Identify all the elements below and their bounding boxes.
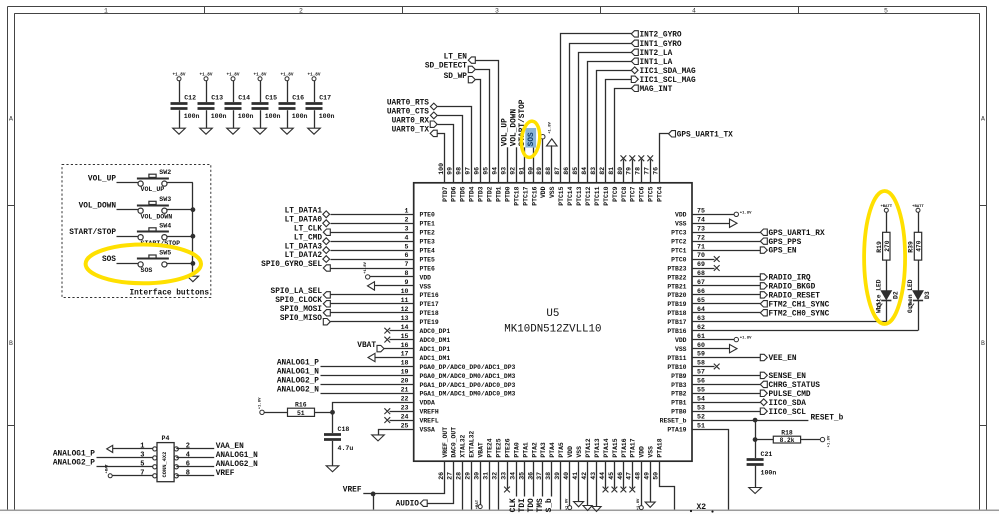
svg-text:XTAL32: XTAL32 <box>460 434 467 457</box>
svg-text:LT_DATA2: LT_DATA2 <box>285 252 323 260</box>
svg-text:60: 60 <box>697 342 705 349</box>
svg-text:SD_WP: SD_WP <box>444 73 468 81</box>
svg-text:96: 96 <box>474 167 481 175</box>
svg-text:PTD7: PTD7 <box>442 186 449 202</box>
svg-text:RESET_b: RESET_b <box>660 418 687 425</box>
svg-text:PTE24: PTE24 <box>487 438 494 457</box>
svg-text:48: 48 <box>635 472 642 480</box>
svg-text:PTA12: PTA12 <box>585 438 592 457</box>
svg-text:UART0_TX: UART0_TX <box>392 127 430 135</box>
svg-text:49: 49 <box>644 472 651 480</box>
svg-text:PTC1: PTC1 <box>671 248 687 255</box>
svg-text:PTA4: PTA4 <box>549 442 556 458</box>
svg-text:21: 21 <box>401 387 409 394</box>
svg-text:PTE19: PTE19 <box>420 319 439 326</box>
svg-text:PTA5: PTA5 <box>558 442 565 458</box>
svg-text:52: 52 <box>697 413 705 420</box>
svg-text:IIC0_SDA: IIC0_SDA <box>769 400 807 408</box>
svg-text:VREF: VREF <box>216 470 235 478</box>
svg-text:IIC1_SDA_MAG: IIC1_SDA_MAG <box>640 68 696 76</box>
svg-text:2: 2 <box>405 216 409 223</box>
svg-text:PULSE_CMD: PULSE_CMD <box>769 391 811 399</box>
svg-text:PTB18: PTB18 <box>667 310 686 317</box>
svg-text:Green LED: Green LED <box>907 279 914 313</box>
svg-text:PTC8: PTC8 <box>621 186 628 202</box>
svg-text:54: 54 <box>697 395 705 402</box>
svg-text:CLK: CLK <box>510 498 518 512</box>
svg-text:VSS: VSS <box>576 446 583 458</box>
svg-text:23: 23 <box>401 404 409 411</box>
svg-text:PTC14: PTC14 <box>567 186 574 205</box>
svg-text:MAG_INT: MAG_INT <box>640 86 673 94</box>
svg-text:RADIO_IRQ: RADIO_IRQ <box>769 275 811 283</box>
svg-text:PTA13: PTA13 <box>594 438 601 457</box>
svg-text:PTC16: PTC16 <box>531 186 538 205</box>
svg-text:14: 14 <box>401 324 409 331</box>
svg-text:PTC4: PTC4 <box>657 186 664 202</box>
svg-text:58: 58 <box>697 360 705 367</box>
svg-text:White LED: White LED <box>876 279 883 313</box>
svg-text:100n: 100n <box>319 113 335 120</box>
svg-text:PTA19: PTA19 <box>667 427 686 434</box>
svg-text:ANALOG1_N: ANALOG1_N <box>277 369 319 377</box>
svg-text:PTC12: PTC12 <box>585 186 592 205</box>
svg-text:PTC2: PTC2 <box>671 239 687 246</box>
svg-text:33: 33 <box>500 472 507 480</box>
svg-text:15: 15 <box>401 333 409 340</box>
svg-text:ANALOG2_N: ANALOG2_N <box>216 461 258 469</box>
svg-text:A: A <box>981 116 985 123</box>
svg-text:6: 6 <box>405 252 409 259</box>
svg-text:TMS: TMS <box>537 498 545 512</box>
svg-text:PTA15: PTA15 <box>612 438 619 457</box>
svg-text:C14: C14 <box>238 95 250 102</box>
svg-text:PTE26: PTE26 <box>504 438 511 457</box>
svg-text:SD_DETECT: SD_DETECT <box>425 63 467 71</box>
svg-text:INT1_LA: INT1_LA <box>640 59 673 67</box>
svg-text:PTA3: PTA3 <box>540 442 547 458</box>
svg-text:PTB23: PTB23 <box>667 265 686 272</box>
svg-text:PTC3: PTC3 <box>671 230 687 237</box>
svg-text:+1.8V: +1.8V <box>740 211 752 215</box>
svg-text:100n: 100n <box>184 113 200 120</box>
svg-text:VREF_OUT: VREF_OUT <box>442 427 449 458</box>
svg-text:PTB0: PTB0 <box>671 409 687 416</box>
svg-text:ADC0_DP1: ADC0_DP1 <box>420 328 451 335</box>
svg-text:55: 55 <box>697 387 705 394</box>
svg-text:S_b: S_b <box>546 498 554 512</box>
svg-text:RESET_b: RESET_b <box>811 414 844 422</box>
svg-text:LT_DATA3: LT_DATA3 <box>285 243 323 251</box>
svg-text:UART0_RTS: UART0_RTS <box>387 100 429 108</box>
svg-text:VOL_UP: VOL_UP <box>88 175 116 183</box>
svg-text:ANALOG2_N: ANALOG2_N <box>277 387 319 395</box>
svg-text:PTB19: PTB19 <box>667 301 686 308</box>
svg-text:70: 70 <box>697 252 705 259</box>
svg-text:PTD1: PTD1 <box>496 186 503 202</box>
svg-text:VOL_DOWN: VOL_DOWN <box>510 109 518 147</box>
svg-text:SOS: SOS <box>102 256 116 264</box>
svg-text:INT2_GYRO: INT2_GYRO <box>640 32 682 40</box>
svg-text:PTB1: PTB1 <box>671 400 687 407</box>
svg-text:27: 27 <box>447 472 454 480</box>
svg-text:PTB11: PTB11 <box>667 355 686 362</box>
svg-text:PTC13: PTC13 <box>576 186 583 205</box>
svg-text:19: 19 <box>401 369 409 376</box>
svg-text:VOL_UP: VOL_UP <box>141 186 165 193</box>
svg-text:PTC7: PTC7 <box>630 186 637 202</box>
svg-text:3: 3 <box>495 7 499 14</box>
svg-text:PTB9: PTB9 <box>671 373 687 380</box>
svg-text:PTB20: PTB20 <box>667 292 686 299</box>
svg-text:LT_CMD: LT_CMD <box>294 234 322 242</box>
svg-text:4.7u: 4.7u <box>338 445 354 452</box>
svg-text:PTC18: PTC18 <box>513 186 520 205</box>
svg-text:FTM2_CH0_SYNC: FTM2_CH0_SYNC <box>769 310 830 318</box>
svg-text:98: 98 <box>456 167 463 175</box>
svg-text:270: 270 <box>884 240 891 251</box>
svg-text:PTE25: PTE25 <box>496 438 503 457</box>
svg-text:SOS: SOS <box>141 267 153 274</box>
svg-text:SW4: SW4 <box>159 222 171 229</box>
svg-text:75: 75 <box>697 208 705 215</box>
svg-text:PTE4: PTE4 <box>420 248 436 255</box>
svg-text:PGA0_DM/ADC0_DM0/ADC1_DM3: PGA0_DM/ADC0_DM0/ADC1_DM3 <box>420 373 516 380</box>
svg-text:62: 62 <box>697 324 705 331</box>
svg-text:100n: 100n <box>292 113 308 120</box>
svg-text:PTA0: PTA0 <box>513 442 520 458</box>
svg-text:PTE6: PTE6 <box>420 265 436 272</box>
svg-text:AUDIO: AUDIO <box>396 501 420 509</box>
svg-text:PTB22: PTB22 <box>667 274 686 281</box>
svg-text:7: 7 <box>405 261 409 268</box>
svg-text:31: 31 <box>483 472 490 480</box>
svg-text:+1.8V: +1.8V <box>258 397 262 409</box>
svg-text:LT_DATA1: LT_DATA1 <box>285 208 323 216</box>
svg-text:Interface buttons: Interface buttons <box>129 290 209 298</box>
svg-text:PGA0_DP/ADC0_DP0/ADC1_DP3: PGA0_DP/ADC0_DP0/ADC1_DP3 <box>420 364 516 371</box>
svg-text:R16: R16 <box>295 401 307 408</box>
svg-text:+BAT: +BAT <box>106 463 110 473</box>
svg-text:PTC9: PTC9 <box>612 186 619 202</box>
svg-text:20: 20 <box>401 378 409 385</box>
svg-text:VDD: VDD <box>540 186 547 198</box>
svg-text:SPI0_GYRO_SEL: SPI0_GYRO_SEL <box>261 261 322 269</box>
svg-text:1: 1 <box>104 7 108 14</box>
svg-text:VSS: VSS <box>648 446 655 458</box>
svg-text:76: 76 <box>653 167 660 175</box>
svg-text:46: 46 <box>617 472 624 480</box>
svg-text:71: 71 <box>697 243 705 250</box>
svg-text:74: 74 <box>697 216 705 223</box>
svg-text:5: 5 <box>405 243 409 250</box>
svg-text:C17: C17 <box>319 95 331 102</box>
svg-text:IIC1_SCL_MAG: IIC1_SCL_MAG <box>640 77 696 85</box>
svg-text:VOL_DOWN: VOL_DOWN <box>79 203 117 211</box>
svg-text:59: 59 <box>697 351 705 358</box>
svg-text:ANALOG1_N: ANALOG1_N <box>216 452 258 460</box>
svg-text:95: 95 <box>483 167 490 175</box>
svg-text:VDD: VDD <box>420 274 432 281</box>
svg-text:UART0_RX: UART0_RX <box>392 117 430 125</box>
svg-text:PTE1: PTE1 <box>420 221 436 228</box>
svg-text:SPI0_MOSI: SPI0_MOSI <box>280 306 322 314</box>
svg-text:R19: R19 <box>876 241 883 253</box>
svg-text:PTA16: PTA16 <box>621 438 628 457</box>
svg-text:24: 24 <box>401 413 409 420</box>
svg-text:77: 77 <box>644 167 651 175</box>
svg-text:EXTAL32: EXTAL32 <box>469 431 476 458</box>
svg-text:1: 1 <box>405 208 409 215</box>
svg-text:100n: 100n <box>211 113 227 120</box>
svg-text:51: 51 <box>697 422 705 429</box>
svg-text:P4: P4 <box>162 435 170 442</box>
svg-text:56: 56 <box>697 378 705 385</box>
svg-text:+1.8V: +1.8V <box>364 261 368 273</box>
svg-text:72: 72 <box>697 234 705 241</box>
svg-text:PTC17: PTC17 <box>522 186 529 205</box>
svg-text:53: 53 <box>697 404 705 411</box>
svg-text:VDD: VDD <box>567 446 574 458</box>
svg-text:GPS_PPS: GPS_PPS <box>769 239 802 247</box>
svg-text:PTB2: PTB2 <box>671 391 687 398</box>
svg-text:VOL_DOWN: VOL_DOWN <box>141 213 173 220</box>
svg-text:PTA14: PTA14 <box>603 438 610 457</box>
svg-text:+BAT: +BAT <box>476 499 480 509</box>
svg-text:8.2k: 8.2k <box>780 437 795 444</box>
svg-text:34: 34 <box>509 472 516 480</box>
svg-text:VOL_UP: VOL_UP <box>501 118 509 146</box>
svg-text:80: 80 <box>617 167 624 175</box>
svg-text:1: 1 <box>140 442 144 450</box>
svg-text:ANALOG2_P: ANALOG2_P <box>53 460 95 468</box>
svg-text:VSSA: VSSA <box>420 427 436 434</box>
svg-text:D2: D2 <box>892 291 899 299</box>
svg-text:VBAT: VBAT <box>478 442 485 458</box>
svg-text:ANALOG2_P: ANALOG2_P <box>277 378 319 386</box>
svg-text:PGA1_DM/ADC1_DM0/ADC0_DM3: PGA1_DM/ADC1_DM0/ADC0_DM3 <box>420 391 516 398</box>
svg-text:UART0_CTS: UART0_CTS <box>387 109 429 117</box>
svg-text:VSS: VSS <box>549 186 556 198</box>
svg-text:START/STOP: START/STOP <box>69 229 116 237</box>
svg-text:C15: C15 <box>265 95 277 102</box>
svg-text:VDD: VDD <box>639 446 646 458</box>
svg-text:16: 16 <box>401 342 409 349</box>
svg-text:ADC1_DP1: ADC1_DP1 <box>420 346 451 353</box>
svg-text:SW2: SW2 <box>159 169 171 176</box>
svg-text:PTA17: PTA17 <box>630 438 637 457</box>
svg-text:100n: 100n <box>265 113 281 120</box>
svg-text:C18: C18 <box>338 426 350 433</box>
svg-text:SPI0_LA_SEL: SPI0_LA_SEL <box>271 288 323 296</box>
svg-text:PTB10: PTB10 <box>667 364 686 371</box>
svg-text:PTE17: PTE17 <box>420 301 439 308</box>
svg-text:RADIO_BKGD: RADIO_BKGD <box>769 284 816 292</box>
svg-text:R39: R39 <box>908 241 915 253</box>
svg-text:PTD0: PTD0 <box>504 186 511 202</box>
svg-text:MK10DN512ZVLL10: MK10DN512ZVLL10 <box>504 323 601 335</box>
svg-text:+1.8V: +1.8V <box>549 121 553 133</box>
svg-text:PTE16: PTE16 <box>420 292 439 299</box>
svg-text:100n: 100n <box>761 470 777 477</box>
svg-text:57: 57 <box>697 369 705 376</box>
svg-text:VSS: VSS <box>675 221 687 228</box>
svg-text:PTB16: PTB16 <box>667 328 686 335</box>
svg-text:PTA2: PTA2 <box>531 442 538 458</box>
svg-text:26: 26 <box>438 472 445 480</box>
svg-text:GPS_UART1_TX: GPS_UART1_TX <box>677 131 733 139</box>
svg-text:17: 17 <box>401 351 409 358</box>
svg-text:PGA1_DP/ADC1_DP0/ADC0_DP3: PGA1_DP/ADC1_DP0/ADC0_DP3 <box>420 382 516 389</box>
svg-text:5: 5 <box>884 7 888 14</box>
svg-text:DAC0_OUT: DAC0_OUT <box>451 427 458 458</box>
svg-text:CHRG_STATUS: CHRG_STATUS <box>769 382 821 390</box>
svg-text:TDI: TDI <box>519 498 527 512</box>
svg-text:ANALOG1_P: ANALOG1_P <box>53 451 95 459</box>
svg-text:470: 470 <box>916 240 923 251</box>
svg-text:GPS_EN: GPS_EN <box>769 248 797 256</box>
svg-text:VAA_EN: VAA_EN <box>216 443 244 451</box>
svg-text:81: 81 <box>608 167 615 175</box>
svg-text:GPS_UART1_RX: GPS_UART1_RX <box>769 230 825 238</box>
svg-text:ADC1_DM1: ADC1_DM1 <box>420 355 451 362</box>
svg-text:RADIO_RESET: RADIO_RESET <box>769 293 821 301</box>
svg-text:C16: C16 <box>292 95 304 102</box>
svg-text:ANALOG1_P: ANALOG1_P <box>277 360 319 368</box>
svg-text:PTC5: PTC5 <box>648 186 655 202</box>
svg-text:U5: U5 <box>546 308 559 320</box>
svg-text:22: 22 <box>401 395 409 402</box>
svg-text:32: 32 <box>492 472 499 480</box>
svg-text:PTE5: PTE5 <box>420 256 436 263</box>
svg-text:PTC6: PTC6 <box>639 186 646 202</box>
svg-text:VSS: VSS <box>420 283 432 290</box>
svg-text:2: 2 <box>186 442 190 450</box>
svg-text:94: 94 <box>492 167 499 175</box>
svg-text:+1.8V: +1.8V <box>740 337 752 341</box>
svg-text:30: 30 <box>474 472 481 480</box>
svg-text:LT_DATA0: LT_DATA0 <box>285 216 323 224</box>
svg-text:B: B <box>9 340 13 347</box>
svg-text:PTE0: PTE0 <box>420 212 436 219</box>
svg-text:R18: R18 <box>781 430 793 437</box>
svg-text:25: 25 <box>401 422 409 429</box>
svg-text:X2: X2 <box>697 503 707 512</box>
svg-text:SPI0_MISO: SPI0_MISO <box>280 315 322 323</box>
svg-text:D3: D3 <box>924 291 931 299</box>
svg-text:2: 2 <box>299 7 303 14</box>
svg-text:SOS: SOS <box>528 132 536 146</box>
svg-text:SW3: SW3 <box>159 196 171 203</box>
svg-text:PTD3: PTD3 <box>478 186 485 202</box>
svg-text:VDDA: VDDA <box>420 400 436 407</box>
svg-text:PTA18: PTA18 <box>657 438 664 457</box>
svg-text:PTE2: PTE2 <box>420 230 436 237</box>
svg-text:29: 29 <box>465 472 472 480</box>
svg-text:28: 28 <box>456 472 463 480</box>
svg-text:93: 93 <box>500 167 507 175</box>
svg-text:18: 18 <box>401 360 409 367</box>
svg-text:50: 50 <box>653 472 660 480</box>
svg-text:45: 45 <box>608 472 615 480</box>
svg-text:PTC10: PTC10 <box>603 186 610 205</box>
svg-text:PTD6: PTD6 <box>451 186 458 202</box>
svg-text:99: 99 <box>447 167 454 175</box>
svg-text:92: 92 <box>509 167 516 175</box>
svg-text:PTB17: PTB17 <box>667 319 686 326</box>
svg-text:PTD5: PTD5 <box>460 186 467 202</box>
svg-text:PTE3: PTE3 <box>420 239 436 246</box>
svg-text:CONN_4X2: CONN_4X2 <box>162 452 168 478</box>
svg-text:VSS: VSS <box>675 346 687 353</box>
svg-text:PTB3: PTB3 <box>671 382 687 389</box>
svg-text:PTC0: PTC0 <box>671 256 687 263</box>
svg-text:PTD2: PTD2 <box>487 186 494 202</box>
svg-text:51: 51 <box>297 410 305 417</box>
svg-text:VEE_EN: VEE_EN <box>769 355 797 363</box>
svg-text:100n: 100n <box>238 113 254 120</box>
svg-text:SENSE_EN: SENSE_EN <box>769 373 807 381</box>
svg-text:SPI0_CLOCK: SPI0_CLOCK <box>275 297 322 305</box>
svg-text:VDD: VDD <box>675 212 687 219</box>
svg-text:73: 73 <box>697 225 705 232</box>
svg-text:C13: C13 <box>211 95 223 102</box>
svg-text:C12: C12 <box>184 95 196 102</box>
svg-text:PTC11: PTC11 <box>594 186 601 205</box>
svg-text:3: 3 <box>405 225 409 232</box>
svg-text:VREF: VREF <box>343 487 362 495</box>
svg-text:PTC15: PTC15 <box>558 186 565 205</box>
svg-text:4: 4 <box>692 7 696 14</box>
svg-text:PTE18: PTE18 <box>420 310 439 317</box>
svg-text:79: 79 <box>626 167 633 175</box>
svg-text:69: 69 <box>697 261 705 268</box>
svg-text:3: 3 <box>140 451 144 459</box>
svg-text:IIC0_SCL: IIC0_SCL <box>769 409 807 417</box>
svg-text:VREFH: VREFH <box>420 409 439 416</box>
svg-text:LT_EN: LT_EN <box>444 53 468 61</box>
svg-text:+1.8V: +1.8V <box>828 435 832 447</box>
svg-text:PTB21: PTB21 <box>667 283 686 290</box>
svg-text:61: 61 <box>697 333 705 340</box>
svg-text:100: 100 <box>438 163 445 175</box>
svg-text:78: 78 <box>635 167 642 175</box>
svg-text:ADC0_DM1: ADC0_DM1 <box>420 337 451 344</box>
svg-text:+1.8V: +1.8V <box>637 498 641 510</box>
svg-text:4: 4 <box>186 451 190 459</box>
svg-text:PTD4: PTD4 <box>469 186 476 202</box>
svg-text:FTM2_CH1_SYNC: FTM2_CH1_SYNC <box>769 301 830 309</box>
svg-text:A: A <box>9 116 13 123</box>
svg-text:INT1_GYRO: INT1_GYRO <box>640 41 682 49</box>
svg-text:TDO: TDO <box>528 498 536 512</box>
svg-text:VREFL: VREFL <box>420 418 439 425</box>
svg-text:VBAT: VBAT <box>357 342 376 350</box>
svg-text:PTA1: PTA1 <box>522 442 529 458</box>
svg-text:+1.8V: +1.8V <box>566 498 570 510</box>
svg-text:C21: C21 <box>761 451 773 458</box>
svg-text:LT_CLK: LT_CLK <box>294 225 322 233</box>
svg-text:INT2_LA: INT2_LA <box>640 50 673 58</box>
svg-text:47: 47 <box>626 472 633 480</box>
svg-text:4: 4 <box>405 234 409 241</box>
svg-text:B: B <box>981 340 985 347</box>
svg-text:VDD: VDD <box>675 337 687 344</box>
svg-text:SW5: SW5 <box>159 250 171 257</box>
svg-text:97: 97 <box>465 167 472 175</box>
